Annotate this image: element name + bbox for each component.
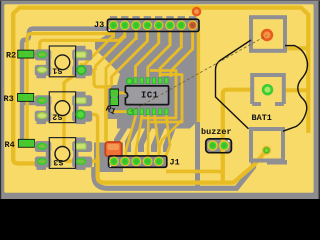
wire S2 via to J1 ring vertical <box>81 115 98 159</box>
connector J1 pin1 square pad <box>105 142 121 156</box>
wire wrap around IC1 right <box>140 71 176 119</box>
battery BAT1 mid pad <box>252 75 284 104</box>
svg-text:S1: S1 <box>52 66 62 76</box>
resistor R4 <box>19 140 35 147</box>
wire J1 right to buzzer vertical jog <box>166 171 223 175</box>
wire fan IC1 bottom to J1 <box>126 114 136 156</box>
switch S2 nc pad <box>37 113 46 119</box>
battery BAT1 silkscreen outline <box>216 40 308 131</box>
wire fan J3 pads down-left to IC1/S1 <box>80 36 114 65</box>
wire BAT1 mid pad left to buzzer vertical <box>223 90 252 182</box>
PCB board substrate <box>4 4 313 193</box>
wire ground ring top and right side <box>13 8 308 133</box>
battery BAT1 bottom pad <box>251 129 283 161</box>
wire grey pour tail below buzzer <box>195 120 200 188</box>
wire S1 via down to S3 and J1 ring <box>64 70 97 161</box>
battery BAT1 top pad <box>251 17 285 51</box>
buzzer <box>206 139 232 153</box>
ratsnest IC1 to BAT1 <box>130 36 266 112</box>
switch S3 <box>35 137 92 170</box>
pin1 marker J1 <box>110 165 112 167</box>
grey stubs above J3 <box>110 17 195 35</box>
wire drop to J1 pin1 square pad <box>104 87 108 141</box>
svg-text:IC1: IC1 <box>141 91 159 101</box>
wire S1 via right branch <box>81 70 111 87</box>
wire R3 to S2 pad <box>34 96 38 99</box>
via near J3 <box>193 8 200 15</box>
J3 pins 1-7 <box>111 22 185 28</box>
IC1 pin1 via top <box>127 78 133 84</box>
grey bumps below J1 <box>108 156 164 167</box>
wire grey bus J3 to left switch column <box>22 29 120 144</box>
wire vertical along pour right edge <box>197 29 200 122</box>
J3 pin 8 <box>190 22 196 28</box>
switch S3 pads bottom <box>77 159 86 165</box>
wire grey branch to S2 left pad <box>22 101 36 105</box>
svg-text:J1: J1 <box>170 158 180 168</box>
wire BAT1 mid pad to right ring <box>284 88 308 92</box>
copper pour around J1 <box>94 143 123 173</box>
wire R4 to S3 pad <box>34 143 39 145</box>
switch S2 <box>35 92 92 125</box>
wire grey fan IC1 to J1 <box>117 127 125 150</box>
wire R1 top pad to IC1 <box>117 92 129 95</box>
svg-text:R3: R3 <box>4 94 14 104</box>
op-amp IC1 body <box>125 86 168 105</box>
wire grey stub right of BAT1 lower pad <box>267 160 287 165</box>
edge shadow right <box>319 0 320 199</box>
svg-text:S2: S2 <box>52 111 62 121</box>
wire grey bottom band from J1 pour to BAT1 pad <box>94 160 254 188</box>
svg-text:BAT1: BAT1 <box>252 113 272 123</box>
svg-text:S3: S3 <box>53 157 63 167</box>
pin1 marker J3 <box>108 29 110 31</box>
switch S1 <box>35 46 92 79</box>
resistor R1 <box>110 89 118 105</box>
wire ring around J1 left end <box>98 150 267 182</box>
wire second bus left from J3 <box>40 35 125 50</box>
edge shadow top <box>0 0 320 2</box>
svg-text:J3: J3 <box>94 20 104 30</box>
IC1 pads top row <box>134 78 168 84</box>
wire bus left from J3 under pour <box>27 34 112 144</box>
IC1 via bottom <box>127 109 133 115</box>
wire R1 bottom pad to IC1 via <box>112 110 128 113</box>
wire R2 to S1 pad <box>34 53 39 56</box>
connector J1 <box>109 156 167 167</box>
edge shadow left <box>0 0 1 199</box>
copper pour under J3 and IC1 <box>95 25 199 129</box>
switch S2 via pad <box>76 110 84 118</box>
IC1 pads bottom row <box>134 109 168 115</box>
wire ground ring left side <box>13 13 40 164</box>
svg-text:buzzer: buzzer <box>201 127 232 137</box>
connector J3 <box>107 19 199 31</box>
J3 pad stubs <box>112 29 115 38</box>
switch S1 nc pad <box>37 67 46 73</box>
wire branch BAT1 top pad to right ring <box>284 46 308 50</box>
svg-text:R4: R4 <box>5 140 15 150</box>
resistor R2 <box>18 50 34 57</box>
svg-text:R2: R2 <box>6 51 16 61</box>
switch S1 via pad <box>77 66 85 74</box>
resistor R3 <box>18 94 34 101</box>
